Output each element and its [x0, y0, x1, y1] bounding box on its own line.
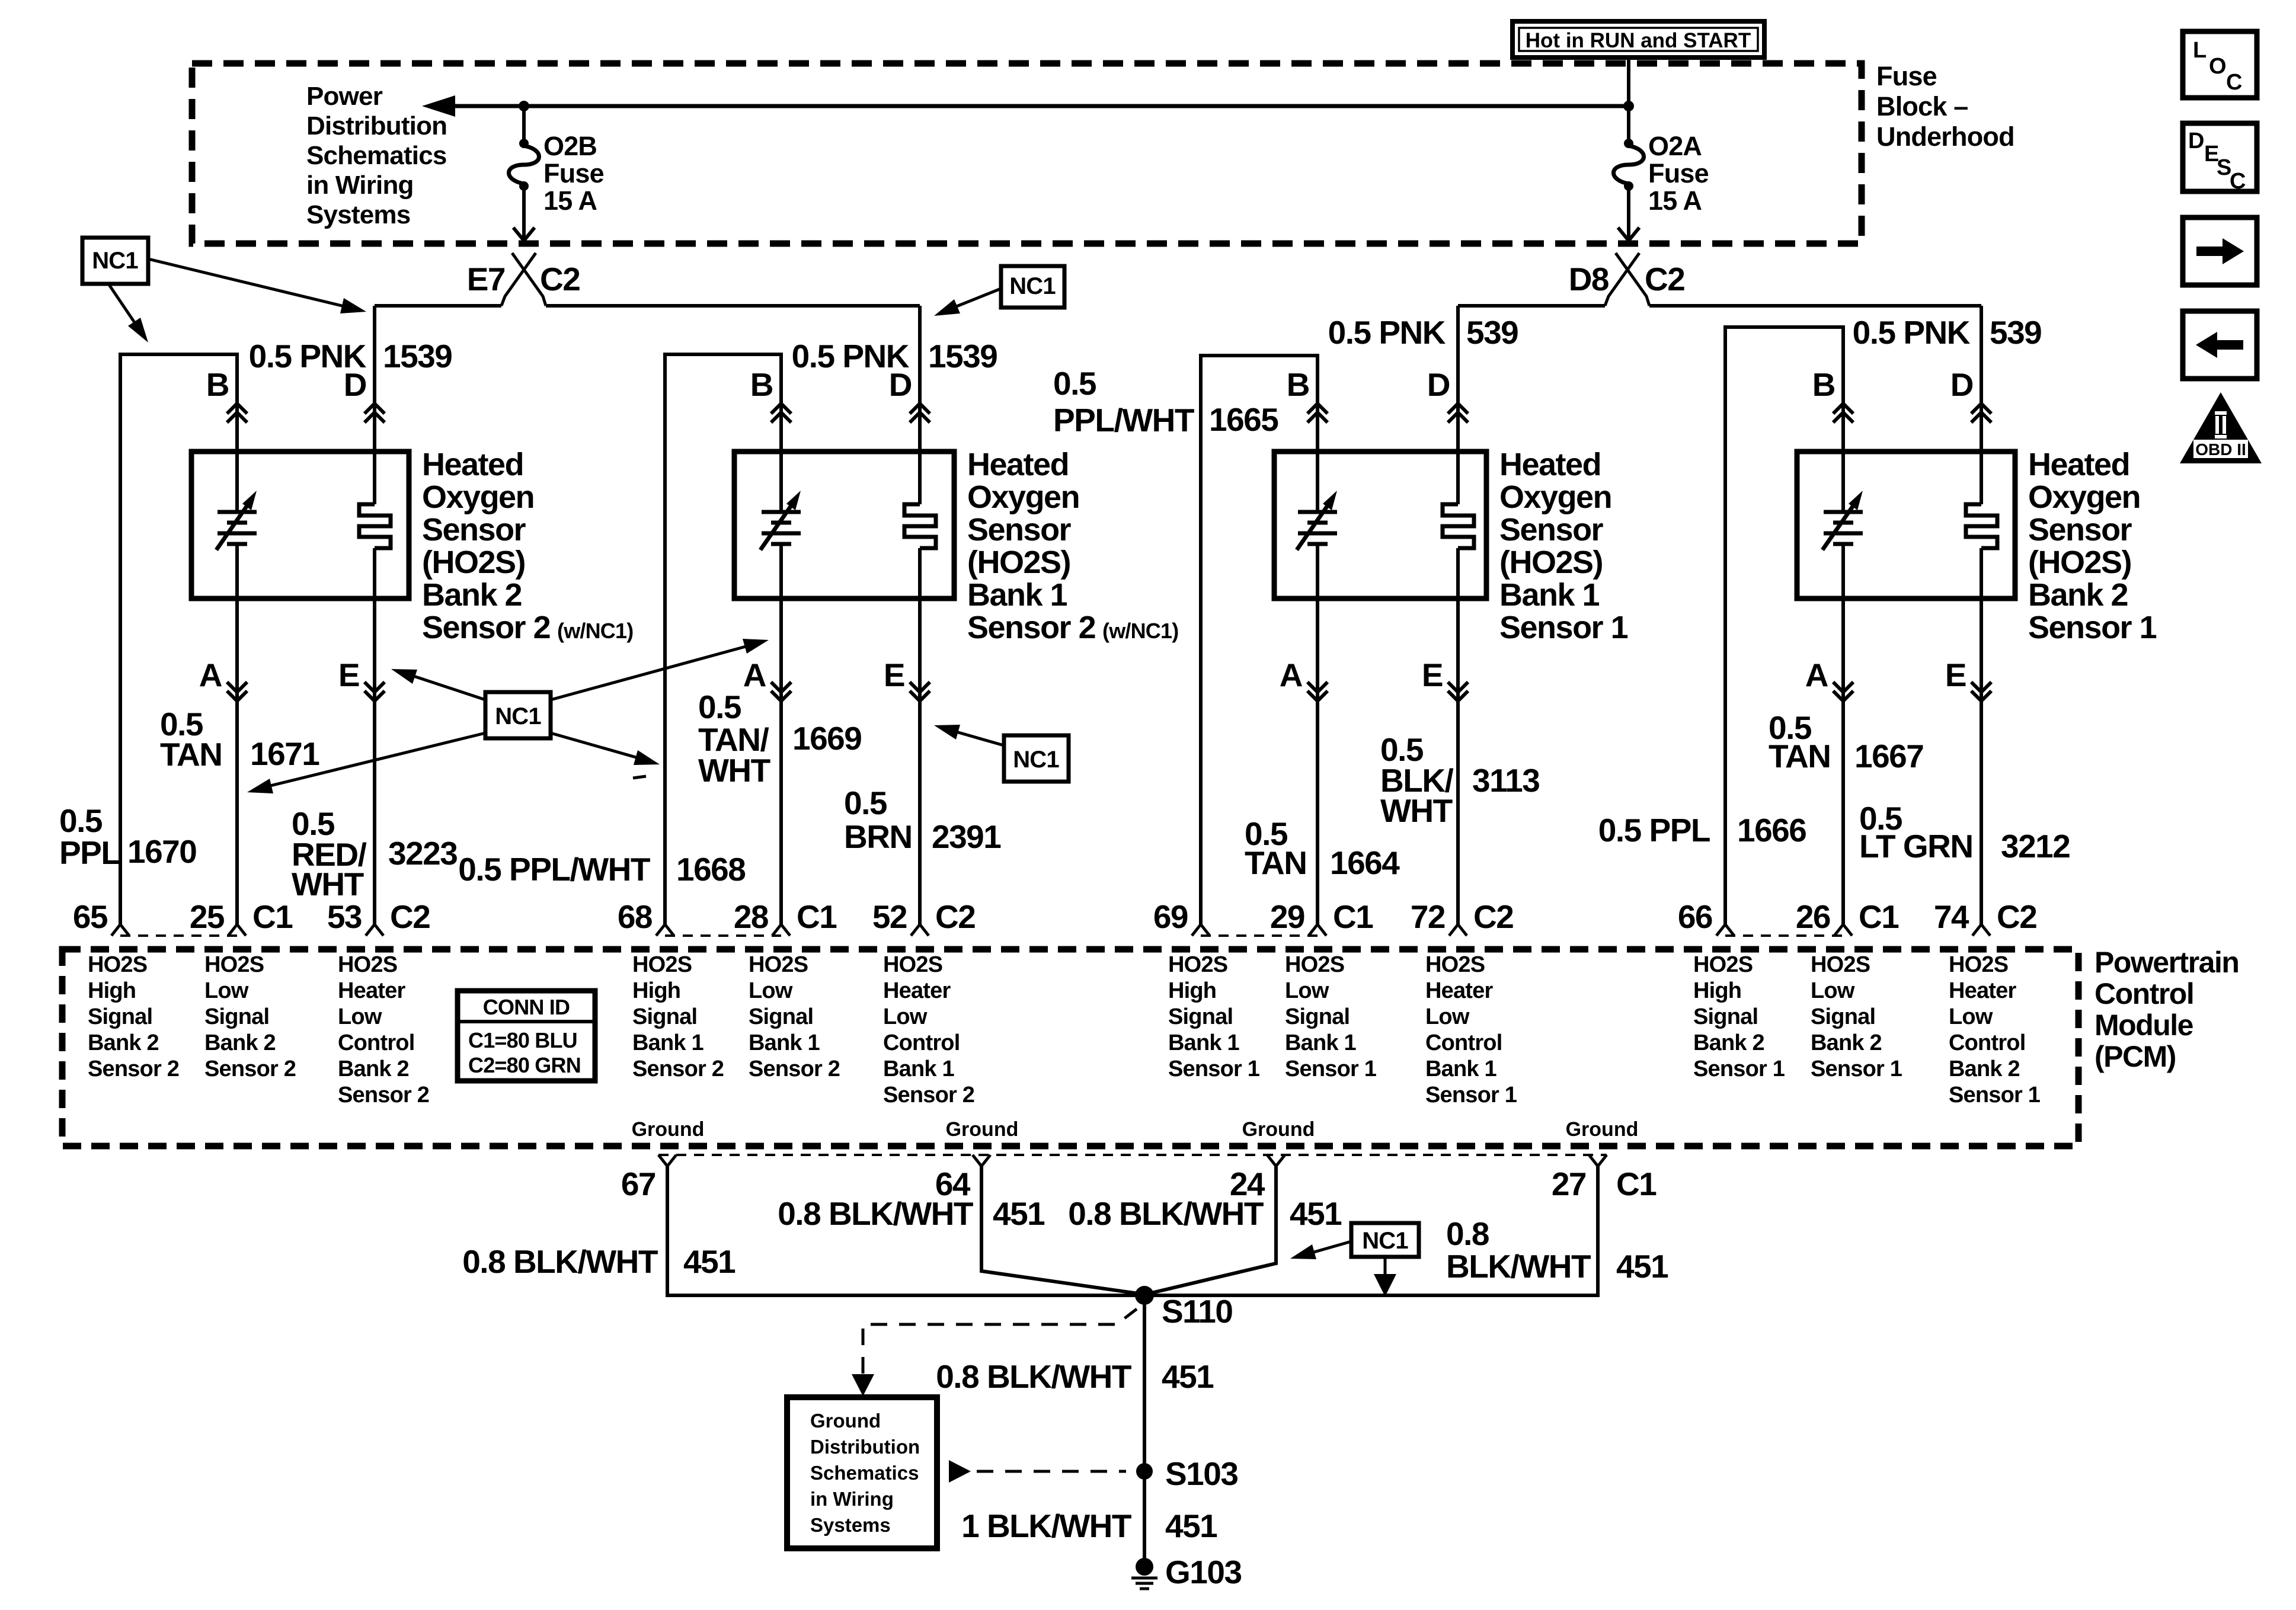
- label: 0.5 PPL 1666 (B2S1 high signal): [1598, 812, 1806, 849]
- svg-text:S103: S103: [1165, 1455, 1237, 1492]
- NC1 callout (top middle): [1001, 266, 1064, 308]
- svg-text:Control: Control: [1425, 1030, 1502, 1055]
- svg-text:High: High: [1693, 978, 1741, 1003]
- svg-text:Heater: Heater: [1425, 978, 1493, 1003]
- svg-text:A: A: [743, 657, 766, 693]
- label: 0.5 PPL 1670 (B2S2 high signal): [59, 802, 196, 871]
- PCM pin function: Heater Low Control Bank 1 Sensor 1: [1425, 952, 1517, 1108]
- PCM pin function: High Signal Bank 1 Sensor 1: [1168, 952, 1260, 1081]
- svg-text:Signal: Signal: [749, 1004, 813, 1029]
- svg-text:Ground: Ground: [946, 1118, 1019, 1141]
- svg-text:OBD II: OBD II: [2195, 440, 2246, 459]
- Powertrain Control Module (PCM) dashed enclosure: [62, 949, 2078, 1146]
- svg-text:0.5 PPL/WHT: 0.5 PPL/WHT: [458, 851, 650, 888]
- svg-text:D: D: [2188, 129, 2204, 153]
- label: 0.5 TAN 1667 (B2S1 low signal): [1769, 709, 1923, 774]
- HO2S Bank 1 Sensor 2 (component box): [734, 452, 954, 598]
- label: HO2S Bank 2 Sensor 1 description: [2028, 447, 2157, 645]
- svg-text:HO2S: HO2S: [1949, 952, 2008, 977]
- svg-text:Low: Low: [1811, 978, 1855, 1003]
- wire 539 PNK: D8 to HO2S B1S1 and B2S1 heaters: [1458, 304, 1605, 308]
- label: 0.8 BLK/WHT 451 (pin 64): [778, 1195, 1045, 1232]
- fuse O2A 15 A: [1614, 106, 1644, 241]
- svg-text:Oxygen: Oxygen: [422, 479, 534, 515]
- wire: HO2S Bank 2 Sensor 1 heater feed (pin D): [1980, 306, 1983, 504]
- NC1 callout (ground area): [1351, 1223, 1419, 1257]
- svg-text:Heater: Heater: [1949, 978, 2016, 1003]
- svg-text:29: 29: [1270, 898, 1304, 935]
- svg-text:Sensor 1: Sensor 1: [1168, 1057, 1260, 1081]
- svg-text:Bank 1: Bank 1: [967, 577, 1067, 613]
- label: 0.5 TAN 1664 (B1S1 low signal): [1245, 815, 1400, 881]
- svg-text:HO2S: HO2S: [1425, 952, 1485, 977]
- svg-text:451: 451: [683, 1243, 736, 1280]
- svg-text:L: L: [2193, 38, 2207, 63]
- svg-text:BRN: BRN: [844, 818, 912, 855]
- label: O2A Fuse 15 A: [1648, 131, 1709, 216]
- svg-text:TAN: TAN: [1245, 844, 1306, 881]
- NC1 arrow to B2S2 pin E wire: [391, 669, 485, 700]
- splice S110: [1135, 1286, 1232, 1330]
- wire: HO2S Bank 1 Sensor 2 high signal (pin B loop down to PCM): [665, 354, 781, 924]
- svg-text:68: 68: [618, 898, 652, 935]
- svg-text:Sensor 1: Sensor 1: [1693, 1057, 1785, 1081]
- NC1 arrow to HO2S B2S2 signal loop: [108, 284, 148, 343]
- svg-text:Sensor: Sensor: [422, 512, 526, 548]
- NC1 arrow down to ground bus: [1374, 1257, 1396, 1297]
- wire 451 BLK/WHT from pin 64: [981, 1166, 1143, 1294]
- svg-text:Sensor: Sensor: [2028, 512, 2132, 548]
- wire: HO2S Bank 2 Sensor 1 low signal (pin A down to PCM): [1841, 544, 1845, 924]
- svg-text:Low: Low: [883, 1004, 928, 1029]
- heater element of HO2S Bank 1 Sensor 2: [904, 504, 936, 548]
- label: Power Distribution Schematics in Wiring Systems: [306, 82, 447, 229]
- svg-text:Ground: Ground: [810, 1410, 881, 1432]
- pin D of HO2S Bank 1 Sensor 2: [889, 366, 930, 422]
- svg-text:0.5: 0.5: [59, 802, 103, 839]
- svg-text:TAN: TAN: [160, 736, 222, 773]
- svg-text:(PCM): (PCM): [2094, 1040, 2176, 1073]
- svg-text:Systems: Systems: [810, 1514, 891, 1536]
- svg-text:Low: Low: [204, 978, 249, 1003]
- svg-text:C1=80 BLU: C1=80 BLU: [468, 1028, 577, 1052]
- icon: DESC button: [2183, 123, 2257, 194]
- svg-text:Sensor 2: Sensor 2: [88, 1057, 179, 1081]
- PCM pin function: High Signal Bank 1 Sensor 2: [632, 952, 724, 1081]
- svg-text:E: E: [1945, 657, 1966, 693]
- svg-text:0.8 BLK/WHT: 0.8 BLK/WHT: [462, 1243, 658, 1280]
- label: 0.8 BLK/WHT 451 (S110 to S103): [936, 1358, 1214, 1395]
- label: 0.8 BLK/WHT 451 (pin 67): [462, 1243, 736, 1280]
- svg-text:52: 52: [872, 898, 907, 935]
- svg-text:Bank 2: Bank 2: [1949, 1057, 2020, 1081]
- svg-text:NC1: NC1: [495, 703, 541, 729]
- svg-text:G103: G103: [1165, 1554, 1242, 1590]
- svg-text:Heated: Heated: [1499, 447, 1601, 482]
- label: 0.5 TAN/WHT 1669 (B1S2 low signal): [698, 689, 861, 789]
- svg-text:Bank 1: Bank 1: [883, 1057, 954, 1081]
- heater element of HO2S Bank 2 Sensor 2: [359, 504, 391, 548]
- svg-text:Fuse: Fuse: [1648, 158, 1709, 188]
- svg-text:S: S: [2217, 155, 2231, 180]
- PCM pin 69: [1153, 898, 1210, 936]
- label: HO2S Bank 2 Sensor 2 description: [422, 447, 633, 645]
- PCM ground pin 27: [1552, 1155, 1607, 1202]
- svg-text:Sensor: Sensor: [1499, 512, 1604, 548]
- label: Powertrain Control Module (PCM): [2094, 946, 2239, 1073]
- svg-text:1669: 1669: [792, 720, 861, 757]
- connector dashed line (C1 pins, B2S2): [120, 934, 237, 937]
- junction: bus to O2B fuse: [519, 101, 529, 111]
- PCM pin 72: [1411, 898, 1467, 936]
- svg-text:Oxygen: Oxygen: [1499, 479, 1611, 515]
- svg-text:C2: C2: [935, 898, 975, 935]
- NC1 arrow to B1S2 pin E wire: [934, 725, 1004, 745]
- svg-text:Heater: Heater: [883, 978, 951, 1003]
- svg-text:Signal: Signal: [1285, 1004, 1350, 1029]
- svg-text:High: High: [1168, 978, 1216, 1003]
- svg-text:Sensor 2: Sensor 2: [967, 610, 1095, 645]
- svg-text:Ground: Ground: [632, 1118, 705, 1141]
- svg-text:E: E: [338, 657, 359, 693]
- svg-text:CONN ID: CONN ID: [483, 995, 570, 1019]
- svg-text:Low: Low: [1425, 1004, 1470, 1029]
- svg-text:Fuse: Fuse: [1876, 61, 1937, 91]
- PCM ground pin 67: [621, 1155, 676, 1202]
- svg-text:Bank 2: Bank 2: [1693, 1030, 1764, 1055]
- svg-text:(HO2S): (HO2S): [422, 545, 525, 580]
- svg-text:451: 451: [1165, 1507, 1217, 1544]
- wire: power distribution bus inside fuse block: [422, 95, 1629, 117]
- svg-text:Sensor 2: Sensor 2: [883, 1083, 974, 1108]
- svg-text:C1: C1: [1859, 898, 1899, 935]
- connector crossover E7 x C2 (fuse block output): [467, 253, 580, 306]
- svg-text:0.5: 0.5: [844, 785, 887, 821]
- svg-text:15 A: 15 A: [1648, 185, 1702, 216]
- pin E of HO2S Bank 2 Sensor 2: [338, 657, 385, 701]
- pin A of HO2S Bank 2 Sensor 2: [199, 657, 247, 701]
- label: 0.8 BLK/WHT 451 (pin 27): [1446, 1215, 1668, 1285]
- svg-text:Control: Control: [1949, 1030, 2025, 1055]
- svg-text:TAN: TAN: [1769, 738, 1830, 774]
- svg-text:69: 69: [1153, 898, 1188, 935]
- svg-text:HO2S: HO2S: [883, 952, 942, 977]
- connector dashed line (C1 pins, B1S1): [1201, 934, 1318, 937]
- label: 0.5 LT GRN 3212 (B2S1 heater low): [1859, 800, 2070, 865]
- svg-text:O2A: O2A: [1648, 131, 1702, 161]
- svg-text:C2: C2: [540, 261, 580, 297]
- svg-text:Powertrain: Powertrain: [2094, 946, 2239, 979]
- PCM pin 26: [1796, 898, 1852, 936]
- svg-text:Low: Low: [749, 978, 793, 1003]
- svg-text:B: B: [1812, 366, 1835, 403]
- svg-text:(HO2S): (HO2S): [2028, 545, 2131, 580]
- wire: HO2S Bank 2 Sensor 2 low signal (pin A down to PCM): [235, 544, 239, 924]
- svg-text:BLK/WHT: BLK/WHT: [1446, 1248, 1591, 1285]
- svg-text:72: 72: [1411, 898, 1445, 935]
- PCM pin function: Heater Low Control Bank 2 Sensor 2: [338, 952, 429, 1108]
- svg-text:Sensor: Sensor: [967, 512, 1072, 548]
- svg-text:0.8: 0.8: [1446, 1215, 1489, 1252]
- PCM pin 52: [872, 898, 929, 936]
- wire 451 BLK/WHT S103 to G103: [1143, 1471, 1146, 1561]
- svg-text:53: 53: [327, 898, 362, 935]
- wire: HO2S Bank 2 Sensor 2 heater feed (pin D): [373, 306, 376, 504]
- svg-text:HO2S: HO2S: [338, 952, 397, 977]
- svg-text:S110: S110: [1162, 1293, 1232, 1330]
- pin B of HO2S Bank 1 Sensor 1: [1287, 366, 1328, 422]
- svg-text:Control: Control: [338, 1030, 414, 1055]
- wire: HO2S Bank 1 Sensor 2 heater low (pin E down to PCM): [918, 548, 922, 924]
- svg-text:Heated: Heated: [967, 447, 1069, 482]
- label: 0.5 PPL/WHT 1668 (B1S2 high signal): [458, 851, 745, 888]
- HO2S Bank 1 Sensor 1 (component box): [1274, 452, 1486, 598]
- pin B of HO2S Bank 2 Sensor 1: [1812, 366, 1853, 422]
- connector dashed line (C1 pins, B2S1): [1725, 934, 1843, 937]
- dashed reference link to Ground Distribution (upper): [852, 1309, 1137, 1396]
- label: 0.5 PNK 539 heater feed wire: [1853, 314, 2042, 351]
- NC1 callout (center, between B2S2 and B1S2): [485, 692, 551, 738]
- NC1 callout (top left): [82, 238, 148, 284]
- svg-text:451: 451: [1162, 1358, 1214, 1395]
- svg-text:Sensor 2: Sensor 2: [338, 1083, 429, 1108]
- pin E of HO2S Bank 2 Sensor 1: [1945, 657, 1991, 701]
- PCM pin 74: [1934, 898, 1990, 936]
- wire: HO2S Bank 1 Sensor 1 heater feed (pin D): [1456, 306, 1460, 504]
- svg-text:Bank 2: Bank 2: [88, 1030, 159, 1055]
- svg-text:2391: 2391: [932, 818, 1001, 855]
- NC1 arrow to B2S2 pin A wire: [247, 733, 485, 793]
- wire 1539 PNK: E7 to HO2S B2S2 and B1S2 heaters: [375, 304, 501, 308]
- svg-text:A: A: [1805, 657, 1828, 693]
- pin D of HO2S Bank 1 Sensor 1: [1427, 366, 1468, 422]
- svg-text:1668: 1668: [676, 851, 745, 888]
- label: 0.5 PNK 1539 heater feed wire: [792, 338, 997, 375]
- svg-text:Heater: Heater: [338, 978, 405, 1003]
- svg-text:C2: C2: [1645, 261, 1684, 297]
- svg-text:0.5 PPL: 0.5 PPL: [1598, 812, 1710, 849]
- NC1 arrow to B1S2 high signal wire: [551, 733, 660, 765]
- svg-text:HO2S: HO2S: [1168, 952, 1227, 977]
- label: Fuse Block - Underhood: [1876, 61, 2014, 152]
- svg-text:C2=80 GRN: C2=80 GRN: [468, 1053, 581, 1077]
- svg-text:Module: Module: [2094, 1009, 2193, 1042]
- svg-text:A: A: [1280, 657, 1303, 693]
- pin A of HO2S Bank 2 Sensor 1: [1805, 657, 1853, 701]
- PCM pin 68: [618, 898, 674, 936]
- svg-text:Sensor 2: Sensor 2: [422, 610, 550, 645]
- svg-text:C1: C1: [1616, 1166, 1657, 1202]
- svg-text:Schematics: Schematics: [306, 141, 447, 170]
- wire 451 BLK/WHT from pin 27: [1148, 1166, 1598, 1295]
- svg-text:Signal: Signal: [632, 1004, 697, 1029]
- icon: LOC button: [2183, 31, 2257, 98]
- connector crossover D8 x C2 (fuse block output): [1569, 253, 1685, 306]
- HO2S Bank 2 Sensor 2 (component box): [191, 452, 409, 598]
- svg-text:HO2S: HO2S: [204, 952, 264, 977]
- pin A of HO2S Bank 1 Sensor 1: [1280, 657, 1328, 701]
- svg-text:Signal: Signal: [88, 1004, 152, 1029]
- splice S103: [1136, 1455, 1237, 1492]
- icon: OBD II warning triangle: [2180, 392, 2262, 463]
- label: 0.5 PPL/WHT 1665 (B1S1 high signal): [1053, 365, 1278, 438]
- PCM pin function: Low Signal Bank 2 Sensor 1: [1811, 952, 1902, 1081]
- wire: HO2S Bank 1 Sensor 1 low signal (pin A down to PCM): [1316, 544, 1319, 924]
- svg-text:D: D: [889, 366, 912, 403]
- pin D of HO2S Bank 2 Sensor 2: [344, 366, 385, 422]
- svg-text:0.5 PNK: 0.5 PNK: [1328, 314, 1446, 351]
- svg-text:Schematics: Schematics: [810, 1462, 919, 1484]
- svg-text:Low: Low: [1285, 978, 1329, 1003]
- label: HO2S Bank 1 Sensor 2 description: [967, 447, 1178, 645]
- svg-text:0.8 BLK/WHT: 0.8 BLK/WHT: [1068, 1195, 1264, 1232]
- svg-text:Heated: Heated: [422, 447, 523, 482]
- svg-text:HO2S: HO2S: [1285, 952, 1344, 977]
- pin E of HO2S Bank 1 Sensor 1: [1422, 657, 1468, 701]
- svg-text:1664: 1664: [1330, 844, 1400, 881]
- svg-text:Bank 2: Bank 2: [204, 1030, 276, 1055]
- heater element of HO2S Bank 1 Sensor 1: [1443, 504, 1474, 548]
- label: 0.5 PNK 1539 heater feed wire: [249, 338, 452, 375]
- label: 1 BLK/WHT 451 (S103 to G103): [961, 1507, 1217, 1544]
- svg-text:Control: Control: [2094, 977, 2193, 1010]
- heater element of HO2S Bank 2 Sensor 1: [1966, 504, 1997, 548]
- svg-text:66: 66: [1678, 898, 1712, 935]
- pin B of HO2S Bank 2 Sensor 2: [206, 366, 247, 422]
- svg-text:C: C: [2230, 169, 2246, 194]
- NC1 arrow to wire 1539 corner: [148, 259, 366, 313]
- svg-text:WHT: WHT: [698, 752, 770, 789]
- svg-text:PPL: PPL: [59, 834, 120, 871]
- svg-text:C1: C1: [1333, 898, 1373, 935]
- svg-text:451: 451: [993, 1195, 1045, 1232]
- oxygen sensing element of HO2S Bank 2 Sensor 2: [216, 491, 257, 550]
- svg-text:Bank 1: Bank 1: [1425, 1057, 1496, 1081]
- svg-text:Control: Control: [883, 1030, 960, 1055]
- svg-text:Hot in RUN and START: Hot in RUN and START: [1526, 29, 1751, 52]
- svg-text:C1: C1: [252, 898, 293, 935]
- connector dashed line (C1 ground pins): [658, 1154, 1607, 1156]
- svg-text:Signal: Signal: [1693, 1004, 1758, 1029]
- svg-text:Ground: Ground: [1566, 1118, 1639, 1141]
- svg-text:Underhood: Underhood: [1876, 121, 2014, 152]
- Fuse Block - Underhood (dashed enclosure): [192, 63, 1862, 244]
- icon: next-page arrow button: [2183, 217, 2257, 285]
- label: 0.5 BRN 2391 (B1S2 heater low): [844, 785, 1001, 855]
- wire: HO2S Bank 2 Sensor 1 high signal (pin B loop down to PCM): [1725, 327, 1843, 924]
- wire 451 BLK/WHT from pin 67: [667, 1166, 1141, 1295]
- svg-text:451: 451: [1290, 1195, 1342, 1232]
- svg-text:Oxygen: Oxygen: [2028, 479, 2140, 515]
- Ground Distribution Schematics in Wiring Systems (reference box): [787, 1397, 937, 1548]
- svg-text:C: C: [2226, 70, 2242, 95]
- svg-text:E7: E7: [467, 261, 505, 297]
- svg-text:Block –: Block –: [1876, 91, 1968, 121]
- PCM pin function: Low Signal Bank 1 Sensor 1: [1285, 952, 1377, 1081]
- PCM pin 53: [327, 898, 383, 936]
- ground G103: [1131, 1554, 1242, 1590]
- svg-text:D: D: [1950, 366, 1973, 403]
- svg-text:B: B: [750, 366, 773, 403]
- svg-text:1539: 1539: [928, 338, 997, 375]
- svg-text:D: D: [1427, 366, 1450, 403]
- svg-text:27: 27: [1552, 1166, 1586, 1202]
- icon: previous-page arrow button: [2183, 311, 2257, 379]
- svg-text:D8: D8: [1569, 261, 1609, 297]
- PCM pin 25: [190, 898, 246, 936]
- label: HO2S Bank 1 Sensor 1 description: [1499, 447, 1628, 645]
- svg-text:Bank 2: Bank 2: [422, 577, 522, 613]
- CONN ID legend table: [458, 991, 595, 1081]
- PCM pin function: Low Signal Bank 1 Sensor 2: [749, 952, 840, 1081]
- svg-text:Bank 2: Bank 2: [1811, 1030, 1882, 1055]
- svg-text:(HO2S): (HO2S): [1499, 545, 1603, 580]
- PCM pin 28: [734, 898, 790, 936]
- NC1 arrow to wire 1539 at B1S2 heater: [934, 289, 1001, 316]
- svg-text:Bank 2: Bank 2: [338, 1057, 409, 1081]
- NC1 arrow to pin 24 ground wire: [1290, 1241, 1351, 1259]
- svg-text:A: A: [199, 657, 222, 693]
- svg-text:LT GRN: LT GRN: [1859, 828, 1973, 865]
- label: 0.5 PNK 539 heater feed wire: [1328, 314, 1518, 351]
- svg-text:451: 451: [1616, 1248, 1668, 1285]
- svg-text:Sensor 1: Sensor 1: [1285, 1057, 1377, 1081]
- pin A of HO2S Bank 1 Sensor 2: [743, 657, 791, 701]
- svg-text:High: High: [632, 978, 680, 1003]
- svg-text:Sensor 1: Sensor 1: [1425, 1083, 1517, 1108]
- svg-text:539: 539: [1466, 314, 1518, 351]
- PCM pin 29: [1270, 898, 1326, 936]
- svg-text:Bank 1: Bank 1: [1285, 1030, 1356, 1055]
- NC1 arrow to B1S2 pin A wire: [551, 639, 769, 700]
- svg-text:74: 74: [1934, 898, 1969, 935]
- wire: HO2S Bank 2 Sensor 2 high signal (pin B loop down to PCM): [120, 354, 237, 924]
- svg-text:25: 25: [190, 898, 225, 935]
- svg-text:1 BLK/WHT: 1 BLK/WHT: [961, 1507, 1131, 1544]
- svg-text:Bank 2: Bank 2: [2028, 577, 2128, 613]
- svg-text:C2: C2: [1473, 898, 1513, 935]
- svg-text:1670: 1670: [127, 833, 196, 870]
- svg-text:C2: C2: [1997, 898, 2036, 935]
- label: O2B Fuse 15 A: [543, 131, 604, 216]
- svg-text:C2: C2: [390, 898, 430, 935]
- HO2S Bank 2 Sensor 1 (component box): [1797, 452, 2015, 598]
- svg-text:E: E: [1422, 657, 1443, 693]
- svg-text:WHT: WHT: [1380, 792, 1453, 829]
- svg-text:1671: 1671: [250, 735, 319, 772]
- connector dashed line (C1 pins, B1S2): [665, 934, 781, 937]
- svg-text:1665: 1665: [1209, 401, 1278, 438]
- svg-text:O: O: [2209, 54, 2226, 79]
- svg-text:Bank 1: Bank 1: [749, 1030, 820, 1055]
- svg-text:Power: Power: [306, 82, 383, 111]
- PCM ground pin 24: [1230, 1155, 1285, 1202]
- oxygen sensing element of HO2S Bank 1 Sensor 1: [1297, 491, 1337, 550]
- svg-text:Ground: Ground: [1242, 1118, 1315, 1141]
- PCM pin function: High Signal Bank 2 Sensor 1: [1693, 952, 1785, 1081]
- svg-text:Signal: Signal: [1811, 1004, 1875, 1029]
- svg-text:Oxygen: Oxygen: [967, 479, 1079, 515]
- PCM ground pin 64: [935, 1155, 990, 1202]
- junction: bus to O2A fuse: [1623, 101, 1634, 111]
- svg-text:Bank 1: Bank 1: [1168, 1030, 1239, 1055]
- svg-text:Signal: Signal: [1168, 1004, 1233, 1029]
- svg-text:D: D: [344, 366, 366, 403]
- pin E of HO2S Bank 1 Sensor 2: [884, 657, 930, 701]
- svg-text:Distribution: Distribution: [306, 111, 447, 140]
- PCM pin function: Heater Low Control Bank 1 Sensor 2: [883, 952, 974, 1108]
- svg-text:NC1: NC1: [1013, 747, 1059, 773]
